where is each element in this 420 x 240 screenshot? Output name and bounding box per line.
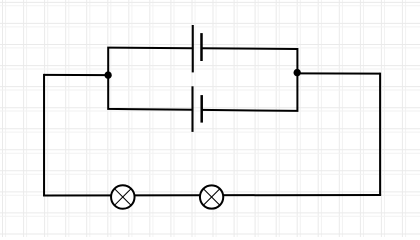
- wire left feed (left rail to left junction dot): [44, 74, 108, 76]
- wire bottom branch right (battery B2 to right junction): [202, 73, 298, 111]
- wire bottom (through lamps): [43, 194, 381, 197]
- wire right feed (right junction dot to right rail): [297, 72, 380, 74]
- node junction dot right: [294, 69, 301, 76]
- battery B1 long plate: [192, 25, 194, 72]
- wire bottom branch left (left junction down and right to battery B2): [108, 75, 192, 110]
- wire left rail: [43, 74, 45, 196]
- node junction dot left: [104, 71, 111, 78]
- battery B2 long plate: [191, 86, 193, 132]
- battery B1 short plate: [200, 33, 203, 61]
- wire top branch right (battery B1 to right junction): [202, 48, 298, 72]
- battery B2 short plate: [200, 95, 203, 123]
- lamp L1: [111, 185, 135, 209]
- wire top branch left (left junction up and right to battery B1): [108, 48, 193, 76]
- wire right rail: [379, 73, 381, 196]
- lamp L2: [200, 185, 223, 208]
